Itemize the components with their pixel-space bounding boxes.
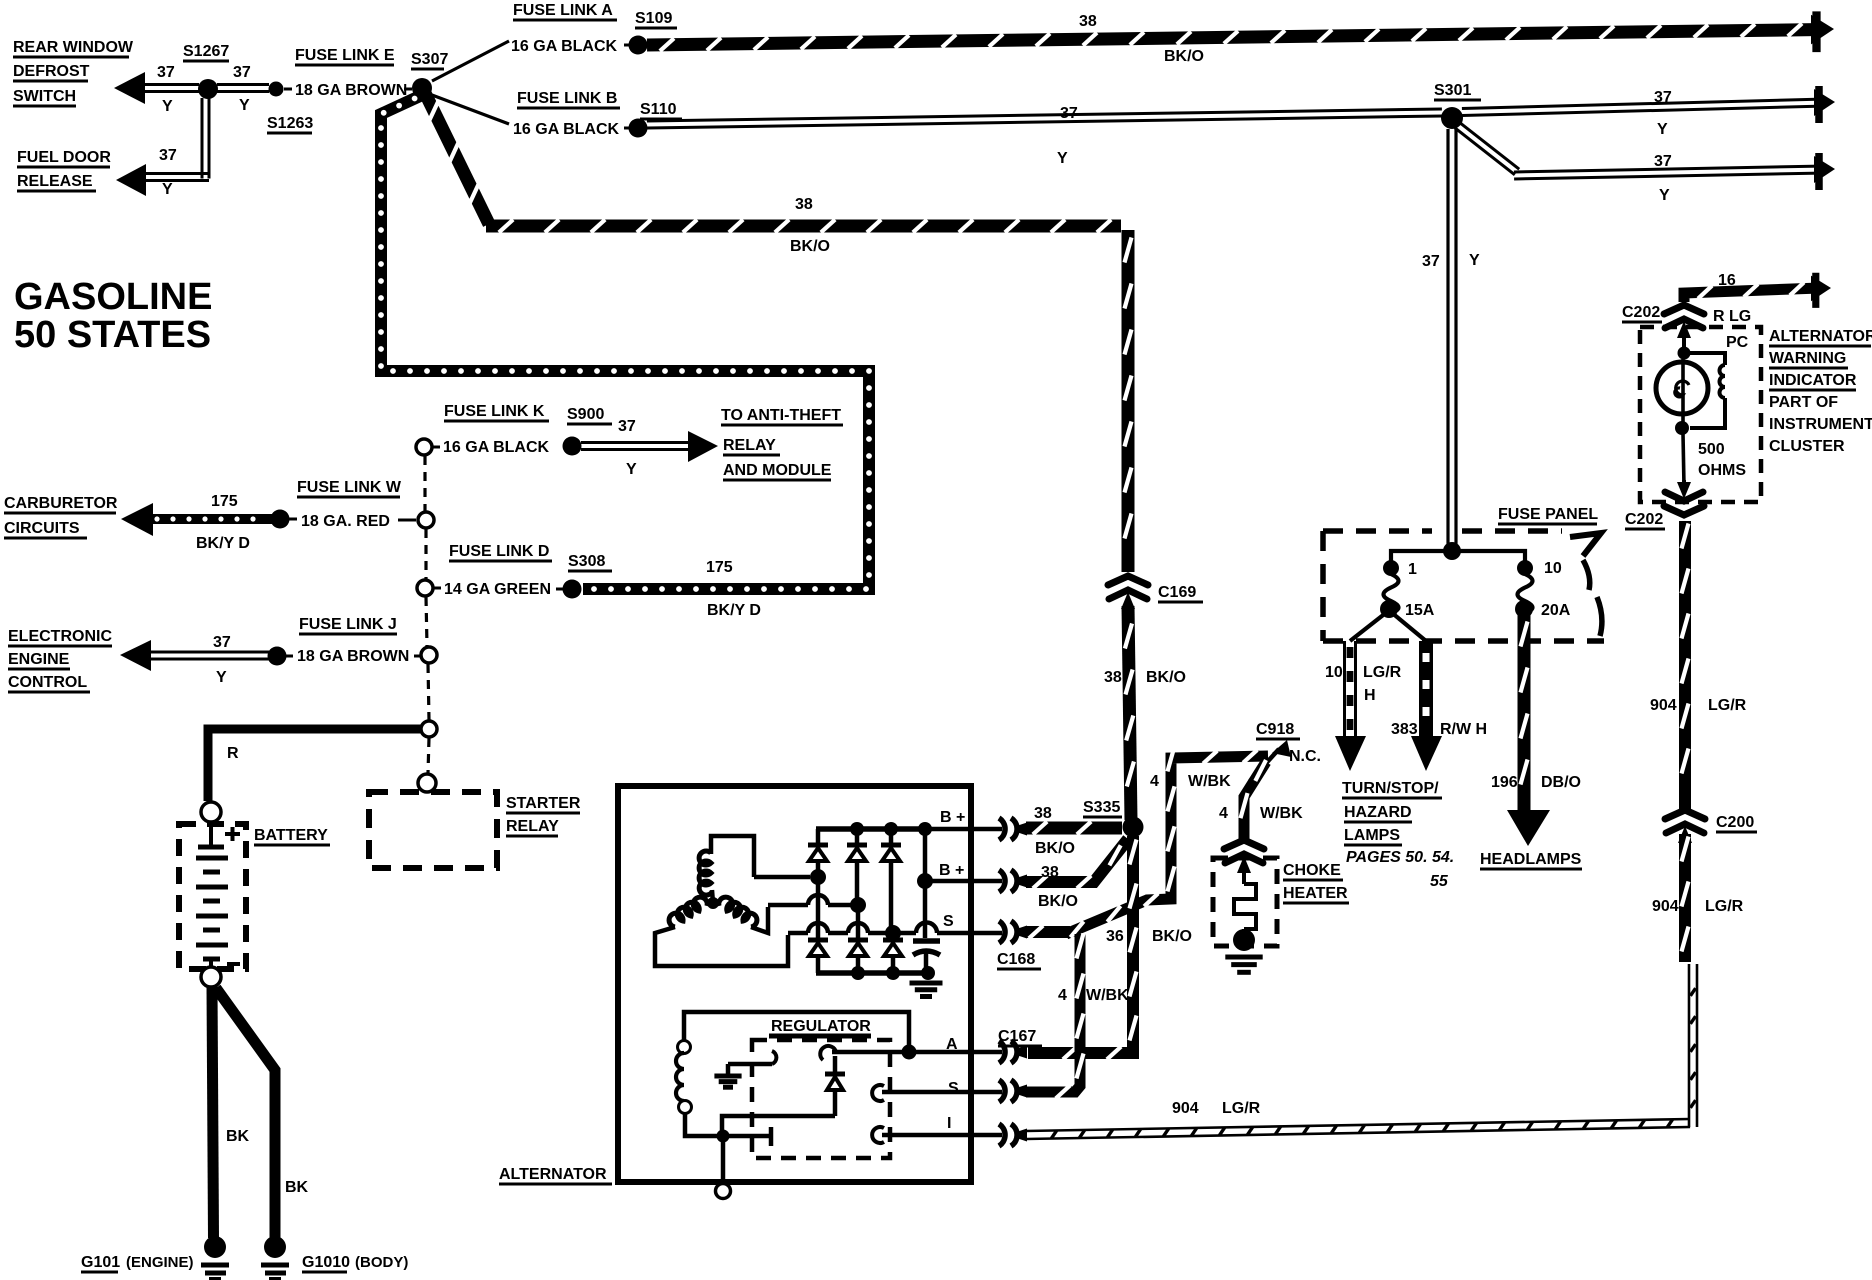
svg-text:38: 38 xyxy=(1034,805,1052,822)
wire 4 W/BK from N.C. to choke heater xyxy=(1241,760,1267,842)
wire into cluster box xyxy=(1682,336,1686,350)
splice dot carb wire xyxy=(271,510,290,529)
alternator stator top coil xyxy=(699,836,754,895)
svg-text:S1263: S1263 xyxy=(267,115,313,132)
svg-text:ALTERNATOR: ALTERNATOR xyxy=(1769,328,1872,345)
label ELECTRONIC ENGINE CONTROL xyxy=(8,628,112,692)
connector regulator I xyxy=(999,1124,1027,1146)
svg-text:CIRCUITS: CIRCUITS xyxy=(4,520,80,537)
label fuse 2 and 20A xyxy=(1541,560,1571,619)
label 16 GA BLACK (fuse link A) xyxy=(511,38,633,55)
svg-text:DB/O: DB/O xyxy=(1541,774,1581,791)
junction ring above battery wire xyxy=(421,721,437,737)
svg-text:DEFROST: DEFROST xyxy=(13,63,90,80)
label C167 xyxy=(998,1028,1042,1046)
svg-text:AND MODULE: AND MODULE xyxy=(723,462,832,479)
svg-text:C167: C167 xyxy=(998,1028,1036,1045)
connector regulator S xyxy=(999,1080,1027,1102)
junction dot lamp bottom xyxy=(1675,421,1689,435)
battery positive ring terminal xyxy=(201,802,221,822)
label G1010 (BODY) xyxy=(302,1254,408,1272)
contact N.C. C918 xyxy=(1250,740,1291,781)
phase line 1 xyxy=(754,869,826,898)
label 37 Y upper right xyxy=(1654,89,1672,138)
diode D2 (mid top) xyxy=(847,829,867,898)
regulator S contact xyxy=(872,1085,1002,1101)
svg-text:C202: C202 xyxy=(1622,304,1660,321)
wire 4 W/BK stator-S to regulator-S xyxy=(1026,934,1084,1099)
label 4 W/BK (vertical pair) xyxy=(1058,987,1129,1004)
wire field coil bottom to I contact xyxy=(685,1113,718,1136)
connector C200 xyxy=(1665,810,1705,843)
wire 904 LG/R I terminal to right xyxy=(1026,1119,1690,1139)
label FUSE PANEL xyxy=(1498,506,1598,524)
svg-text:36: 36 xyxy=(1106,928,1124,945)
svg-text:18 GA BROWN: 18 GA BROWN xyxy=(297,648,409,665)
label S301 xyxy=(1434,82,1481,100)
fuse link J ring terminal xyxy=(421,647,437,663)
svg-text:20A: 20A xyxy=(1541,602,1571,619)
svg-text:LG/R: LG/R xyxy=(1222,1100,1261,1117)
svg-text:TO ANTI-THEFT: TO ANTI-THEFT xyxy=(721,407,841,424)
svg-text:LG/R: LG/R xyxy=(1708,697,1747,714)
splice S1263 dot xyxy=(269,82,284,97)
svg-text:FUEL DOOR: FUEL DOOR xyxy=(17,149,111,166)
label S308 xyxy=(568,553,612,571)
label FUSE LINK B xyxy=(517,90,620,108)
label C169 xyxy=(1158,584,1203,602)
fuse panel junction dot xyxy=(1443,542,1461,560)
label 383 R/W H xyxy=(1391,721,1487,738)
label C918 xyxy=(1256,721,1300,739)
svg-text:38: 38 xyxy=(795,196,813,213)
label B+ (top) xyxy=(940,809,965,826)
svg-text:37: 37 xyxy=(1060,105,1078,122)
svg-text:RELAY: RELAY xyxy=(723,437,776,454)
alternator box xyxy=(618,786,971,1182)
regulator I contact xyxy=(872,1127,1002,1143)
label 37 Y right of S1267 xyxy=(233,64,251,114)
arrow to carburetor circuits xyxy=(121,503,153,536)
svg-text:10: 10 xyxy=(1325,664,1343,681)
label 36 BK/O xyxy=(1106,928,1192,945)
svg-text:CARBURETOR: CARBURETOR xyxy=(4,495,118,512)
alternator case ground terminal xyxy=(716,1184,731,1199)
alternator stator left coil xyxy=(655,897,788,966)
splice S1267 xyxy=(198,79,218,99)
label 38 BK/O (B+ top) xyxy=(1034,805,1075,857)
svg-text:16: 16 xyxy=(1718,272,1736,289)
svg-text:S1267: S1267 xyxy=(183,43,229,60)
label fuse 1 and 15A xyxy=(1405,561,1435,619)
label R xyxy=(227,745,239,762)
fuse 2 20A xyxy=(1515,560,1533,618)
svg-text:16 GA BLACK: 16 GA BLACK xyxy=(443,439,550,456)
label PC xyxy=(1726,334,1749,351)
svg-text:BATTERY: BATTERY xyxy=(254,827,328,844)
fuse panel bus xyxy=(1391,551,1525,562)
battery minus sign xyxy=(227,962,240,966)
resistor 500 ohms xyxy=(1690,353,1725,428)
wire 904 LG/R C200 down xyxy=(1682,834,1689,962)
svg-text:38: 38 xyxy=(1104,669,1122,686)
arrow to electronic engine control xyxy=(120,640,151,671)
label C202 bottom xyxy=(1625,511,1665,529)
svg-text:15A: 15A xyxy=(1405,602,1435,619)
label BK engine ground wire xyxy=(226,1128,250,1145)
wire to I fixed contact xyxy=(729,1127,771,1146)
label FUSE LINK W xyxy=(297,479,402,497)
svg-text:W/BK: W/BK xyxy=(1188,773,1231,790)
arrow to fuel door release xyxy=(116,164,146,196)
ground G1010 xyxy=(261,1236,289,1279)
label 904 LG/R lower xyxy=(1652,898,1744,915)
label B+ (second) xyxy=(939,862,964,879)
svg-text:H: H xyxy=(1364,687,1376,704)
svg-text:FUSE LINK D: FUSE LINK D xyxy=(449,543,549,560)
splice S109 dot xyxy=(629,36,648,55)
wire 38 BK/O B+2 to S335 xyxy=(1026,839,1128,888)
diode D6 (right bottom) xyxy=(883,939,903,973)
arrow to rear window defrost switch xyxy=(114,72,145,104)
svg-text:FUSE LINK K: FUSE LINK K xyxy=(444,403,545,420)
label C168 xyxy=(997,951,1041,969)
svg-text:175: 175 xyxy=(211,493,238,510)
label FUSE LINK J xyxy=(299,616,397,634)
wire 196 DB/O from fuse 2 xyxy=(1521,614,1528,812)
svg-text:Y: Y xyxy=(216,669,227,686)
svg-text:38: 38 xyxy=(1041,864,1059,881)
svg-text:WARNING: WARNING xyxy=(1769,350,1846,367)
svg-text:S335: S335 xyxy=(1083,799,1120,816)
svg-text:S307: S307 xyxy=(411,51,448,68)
svg-text:CHOKE: CHOKE xyxy=(1283,862,1341,879)
svg-text:REGULATOR: REGULATOR xyxy=(771,1018,871,1035)
wire 36 BK/O S335 down to A connector xyxy=(1028,836,1137,1059)
label 37 Y fuel door xyxy=(159,147,177,198)
connector B+ top xyxy=(999,818,1027,840)
svg-text:Y: Y xyxy=(162,181,173,198)
label S1267 xyxy=(183,43,229,61)
label C202 top xyxy=(1622,304,1662,322)
ground G101 xyxy=(201,1236,229,1279)
junction dot lamp top xyxy=(1678,347,1691,360)
svg-text:196: 196 xyxy=(1491,774,1518,791)
svg-text:Y: Y xyxy=(1057,150,1068,167)
svg-text:904: 904 xyxy=(1652,898,1679,915)
connector C168 S terminal xyxy=(999,921,1027,943)
svg-text:FUSE LINK E: FUSE LINK E xyxy=(295,47,395,64)
splice S307 xyxy=(412,78,432,98)
label BATTERY xyxy=(254,827,330,845)
wire 38 BK/O from S109 to right edge xyxy=(647,23,1822,51)
wire 38 BK/O B+ to S335 xyxy=(1026,822,1122,835)
label S109 xyxy=(635,10,677,28)
label S (stator terminal) xyxy=(943,913,954,930)
svg-text:OHMS: OHMS xyxy=(1698,462,1746,479)
svg-text:ENGINE: ENGINE xyxy=(8,651,70,668)
splice S110 dot xyxy=(629,119,648,138)
svg-text:CONTROL: CONTROL xyxy=(8,674,87,691)
diode D3 (right top) xyxy=(881,829,901,926)
svg-text:18 GA BROWN: 18 GA BROWN xyxy=(295,82,407,99)
svg-text:HAZARD: HAZARD xyxy=(1344,804,1412,821)
svg-text:RELEASE: RELEASE xyxy=(17,173,93,190)
stator Y junction xyxy=(707,890,719,909)
svg-text:LG/R: LG/R xyxy=(1705,898,1744,915)
svg-text:S109: S109 xyxy=(635,10,672,27)
label REAR WINDOW DEFROST SWITCH xyxy=(13,39,134,106)
wire BK battery to G101 xyxy=(212,986,214,1238)
alternator stator right coil xyxy=(719,897,768,933)
svg-text:4: 4 xyxy=(1058,987,1067,1004)
svg-text:TURN/STOP/: TURN/STOP/ xyxy=(1342,780,1439,797)
svg-text:B +: B + xyxy=(939,862,964,879)
svg-text:37: 37 xyxy=(157,64,175,81)
label S terminal xyxy=(948,1080,959,1097)
wire 37 Y to fuel door release xyxy=(144,98,209,181)
wire 38 BK/O from S307 to C169 (diagonal, horizontal, vertical) xyxy=(425,93,1132,572)
wire R battery to fuse link chain xyxy=(208,729,421,801)
instrument cluster dashed box xyxy=(1640,327,1761,502)
label 16 GA BLACK fuse link K xyxy=(433,439,550,456)
label BK body ground wire xyxy=(285,1179,309,1196)
label 18 GA BROWN fuse link J xyxy=(285,648,421,665)
svg-text:S110: S110 xyxy=(640,101,677,118)
svg-text:PC: PC xyxy=(1726,334,1749,351)
svg-text:A: A xyxy=(946,1036,958,1053)
svg-text:37: 37 xyxy=(159,147,177,164)
fuse link W ring terminal xyxy=(418,512,434,528)
dashed wire fuse link chain xyxy=(425,456,429,773)
svg-text:BK/O: BK/O xyxy=(1152,928,1192,945)
svg-text:G101: G101 xyxy=(81,1254,120,1271)
label 175 BK/Y D fuse link D xyxy=(706,559,761,619)
svg-text:B +: B + xyxy=(940,809,965,826)
label S110 xyxy=(640,101,682,119)
wire lamp to C202 bottom stub xyxy=(1682,480,1686,492)
label FUSE LINK D xyxy=(449,543,552,561)
svg-text:37: 37 xyxy=(213,634,231,651)
svg-text:S301: S301 xyxy=(1434,82,1471,99)
svg-text:BK/Y D: BK/Y D xyxy=(707,602,761,619)
svg-text:G1010: G1010 xyxy=(302,1254,350,1271)
svg-text:RELAY: RELAY xyxy=(506,818,559,835)
svg-text:Y: Y xyxy=(1657,121,1668,138)
svg-text:BK/Y D: BK/Y D xyxy=(196,535,250,552)
svg-text:BK/O: BK/O xyxy=(1035,840,1075,857)
wire lamp bottom to C202 bottom xyxy=(1683,434,1684,486)
label 37 Y vertical xyxy=(1422,252,1480,270)
battery cells xyxy=(196,822,228,966)
wire 383 R/W H striped xyxy=(1423,641,1430,738)
svg-text:HEADLAMPS: HEADLAMPS xyxy=(1480,851,1582,868)
arrowhead 16 R LG xyxy=(1811,273,1831,308)
label TO ANTI-THEFT RELAY AND MODULE xyxy=(721,407,843,480)
choke heater ground xyxy=(1225,957,1262,972)
splice S900 dot xyxy=(563,437,582,456)
arrowhead turn lamps left xyxy=(1335,736,1366,771)
diode D5 (mid bottom) xyxy=(848,911,868,973)
svg-text:S900: S900 xyxy=(567,406,604,423)
diode D4 (left bottom) xyxy=(808,898,828,973)
svg-text:C168: C168 xyxy=(997,951,1035,968)
splice S308 dot xyxy=(563,580,582,599)
svg-text:R LG: R LG xyxy=(1713,308,1751,325)
arrowhead anti-theft wire xyxy=(688,431,718,462)
wire BK battery to G1010 xyxy=(216,988,275,1238)
wire 4 W/BK stator to choke heater xyxy=(1026,746,1268,938)
svg-text:REAR WINDOW: REAR WINDOW xyxy=(13,39,134,56)
svg-text:38: 38 xyxy=(1079,13,1097,30)
battery dashed box xyxy=(179,824,246,969)
svg-text:S308: S308 xyxy=(568,553,605,570)
arrowhead upper right 37 wire xyxy=(1814,86,1835,123)
connector B+ second xyxy=(999,870,1027,892)
label 14 GA GREEN xyxy=(434,581,563,598)
regulator A contact curl xyxy=(820,1046,836,1060)
capacitor C1 xyxy=(913,886,940,980)
splice S301 xyxy=(1441,107,1463,129)
wire 37 Y from S301 to right edge (upper) xyxy=(1462,99,1826,116)
svg-text:BK/O: BK/O xyxy=(790,238,830,255)
splice dot EEC wire xyxy=(268,647,287,666)
connector C202 top xyxy=(1664,305,1704,338)
svg-text:(ENGINE): (ENGINE) xyxy=(126,1254,194,1271)
leader line S307 to fuse link B xyxy=(432,95,509,124)
svg-text:BK: BK xyxy=(226,1128,250,1145)
arrowhead headlamps xyxy=(1507,810,1550,846)
svg-text:BK/O: BK/O xyxy=(1146,669,1186,686)
svg-text:HEATER: HEATER xyxy=(1283,885,1348,902)
svg-text:Y: Y xyxy=(239,97,250,114)
svg-text:Y: Y xyxy=(162,98,173,115)
svg-text:INSTRUMENT: INSTRUMENT xyxy=(1769,416,1872,433)
wire 37 Y from S301 down to fuse panel xyxy=(1448,129,1456,551)
fuse link K ring terminal xyxy=(416,439,432,455)
label S900 xyxy=(567,406,612,424)
svg-text:FUSE LINK A: FUSE LINK A xyxy=(513,2,613,19)
label S1263 xyxy=(267,115,313,133)
fuse 1 15A xyxy=(1380,560,1399,618)
choke heater dashed box xyxy=(1213,858,1277,946)
svg-text:50 STATES: 50 STATES xyxy=(14,314,211,356)
wire zener to junction xyxy=(722,1116,835,1133)
starter relay dashed box xyxy=(369,792,497,868)
splice S335 xyxy=(1123,817,1144,838)
label A terminal xyxy=(946,1036,958,1053)
label CARBURETOR CIRCUITS xyxy=(4,495,118,538)
label ALTERNATOR xyxy=(499,1166,612,1184)
phase line 2 with hop over left column xyxy=(768,861,866,913)
svg-text:W/BK: W/BK xyxy=(1086,987,1129,1004)
label FUSE LINK K xyxy=(444,403,549,421)
label 500 OHMS xyxy=(1698,441,1746,479)
label TURN/STOP/HAZARD LAMPS xyxy=(1342,780,1454,890)
svg-text:ELECTRONIC: ELECTRONIC xyxy=(8,628,112,645)
svg-text:BK/O: BK/O xyxy=(1038,893,1078,910)
label 38 BK/O below C169 xyxy=(1104,669,1186,686)
label S335 xyxy=(1083,799,1122,817)
arrowhead wire 38 right edge xyxy=(1811,11,1834,52)
wire 904 LG/R thin vertical xyxy=(1689,964,1697,1127)
wire field coil to A terminal (top loop) xyxy=(684,1012,909,1048)
phase line 3 with hops xyxy=(788,923,901,941)
choke heater ground dot xyxy=(1233,929,1255,951)
label FUEL DOOR RELEASE xyxy=(17,149,111,191)
svg-text:C169: C169 xyxy=(1158,584,1196,601)
svg-text:FUSE LINK J: FUSE LINK J xyxy=(299,616,397,633)
svg-text:16 GA BLACK: 16 GA BLACK xyxy=(511,38,618,55)
label ALTERNATOR WARNING INDICATOR PART OF INSTRUMENT CLUSTER xyxy=(1769,328,1872,455)
svg-text:PART OF: PART OF xyxy=(1769,394,1838,411)
svg-text:W/BK: W/BK xyxy=(1260,805,1303,822)
svg-text:904: 904 xyxy=(1650,697,1677,714)
label 196 DB/O xyxy=(1491,774,1581,791)
label REGULATOR xyxy=(769,1018,871,1036)
label 18 GA. RED xyxy=(288,513,416,530)
diode D1 (left top) xyxy=(808,829,828,870)
choke heater element xyxy=(1234,864,1256,934)
svg-text:S: S xyxy=(948,1080,959,1097)
label 904 LG/R (bottom) xyxy=(1172,1100,1261,1117)
svg-text:LG/R: LG/R xyxy=(1363,664,1402,681)
svg-text:Y: Y xyxy=(1659,187,1670,204)
alternator case ground wire xyxy=(721,1142,726,1184)
label 37 Y EEC xyxy=(213,634,231,686)
wire 37 Y S900 to anti-theft xyxy=(581,443,692,450)
svg-text:383: 383 xyxy=(1391,721,1418,738)
label 16 GA BLACK (fuse link B) xyxy=(513,121,632,138)
label 37 Y left of S1267 xyxy=(157,64,175,115)
wire 37 Y from S301 to right edge (lower) xyxy=(1455,122,1826,179)
svg-text:R/W H: R/W H xyxy=(1440,721,1487,738)
label 38 BK/O (B+ second) xyxy=(1038,864,1078,910)
label HEADLAMPS xyxy=(1480,851,1582,869)
svg-text:BK/O: BK/O xyxy=(1164,48,1204,65)
svg-text:Y: Y xyxy=(1469,252,1480,269)
wire 10 LG/R H striped xyxy=(1345,641,1356,736)
svg-text:N.C.: N.C. xyxy=(1289,748,1321,765)
zener diode regulator xyxy=(825,1056,845,1116)
battery plus sign xyxy=(225,827,240,841)
B+ output wire top xyxy=(925,827,1002,832)
svg-text:PAGES 50. 54.: PAGES 50. 54. xyxy=(1346,849,1454,866)
label G101 (ENGINE) xyxy=(81,1254,194,1272)
svg-text:37: 37 xyxy=(1654,89,1672,106)
svg-text:4: 4 xyxy=(1219,805,1228,822)
wire fuse link E dotted loop S307 to S308 xyxy=(378,96,872,592)
wire 37 Y from S110 to S301 xyxy=(647,109,1442,128)
svg-text:C918: C918 xyxy=(1256,721,1294,738)
label FUSE LINK A xyxy=(513,2,617,20)
svg-text:14 GA GREEN: 14 GA GREEN xyxy=(444,581,551,598)
wire A to connector xyxy=(911,1050,1002,1055)
connector C202 bottom xyxy=(1664,482,1704,515)
label 18 GA BROWN fuse link E xyxy=(284,82,412,99)
svg-text:STARTER: STARTER xyxy=(506,795,581,812)
label 4 W/BK (upper pair) xyxy=(1150,773,1231,790)
label N.C. xyxy=(1289,748,1321,765)
B+ output wire second xyxy=(925,879,1002,884)
diode rectifier bottom rail xyxy=(816,966,928,980)
svg-text:37: 37 xyxy=(618,418,636,435)
svg-text:(BODY): (BODY) xyxy=(355,1254,408,1271)
wire 37 Y from S1267 to defrost arrow xyxy=(143,85,199,92)
diode rectifier top rail xyxy=(816,822,932,836)
wire A inside regulator xyxy=(832,1045,917,1060)
regulator ground branch xyxy=(714,1051,776,1087)
